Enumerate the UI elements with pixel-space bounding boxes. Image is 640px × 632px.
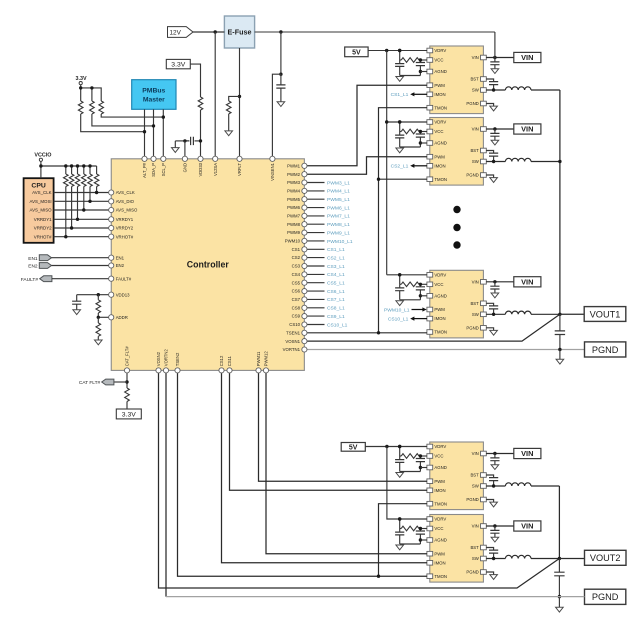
svg-text:CS12: CS12 [219,355,224,366]
svg-text:PGND: PGND [466,101,478,106]
svg-text:VDRV: VDRV [434,48,446,53]
svg-text:PWM11: PWM11 [256,351,261,366]
svg-text:VDRV: VDRV [434,444,446,449]
svg-text:5V: 5V [352,49,361,56]
svg-text:PGND: PGND [466,497,478,502]
svg-text:PWM5_L1: PWM5_L1 [327,197,350,203]
svg-text:3.3V: 3.3V [171,62,185,69]
svg-text:CS4_L1: CS4_L1 [327,272,345,278]
svg-text:PWM5: PWM5 [287,197,301,202]
svg-text:CS7_L1: CS7_L1 [327,297,345,303]
svg-text:E-Fuse: E-Fuse [228,28,252,37]
svg-text:AGND: AGND [434,141,446,146]
svg-text:CS2_L1: CS2_L1 [391,164,409,170]
svg-text:CS9: CS9 [292,314,301,319]
svg-text:PWM3_L1: PWM3_L1 [327,180,350,186]
svg-text:IMON: IMON [434,92,445,97]
svg-text:VIN: VIN [472,55,479,60]
svg-text:PWM9: PWM9 [287,230,301,235]
svg-text:VOSN2: VOSN2 [156,351,161,366]
svg-text:CS1_L1: CS1_L1 [391,92,409,98]
svg-text:SDA_P: SDA_P [151,163,156,177]
svg-text:PWM12: PWM12 [264,351,269,367]
svg-text:PGND: PGND [592,345,619,355]
svg-text:TMON: TMON [434,177,447,182]
svg-text:ALT_P#: ALT_P# [142,162,147,177]
svg-text:VCC: VCC [434,282,443,287]
svg-text:EN1: EN1 [28,256,38,262]
svg-text:TMON: TMON [434,330,447,335]
svg-text:BST: BST [470,545,479,550]
svg-text:CS7: CS7 [292,297,301,302]
svg-text:CS10_L1: CS10_L1 [388,316,409,322]
svg-text:CS5_L1: CS5_L1 [327,281,345,287]
svg-text:CAT_FLT#: CAT_FLT# [125,346,130,367]
svg-text:PWM8: PWM8 [287,222,301,227]
svg-text:VCC: VCC [434,58,443,63]
svg-text:3.3V: 3.3V [75,76,86,82]
svg-text:CS3: CS3 [292,264,301,269]
svg-text:PWM4: PWM4 [287,189,301,194]
svg-text:CS3_L1: CS3_L1 [327,264,345,270]
svg-text:SW: SW [472,484,480,489]
svg-text:VRHOT#: VRHOT# [116,234,134,239]
svg-text:PWM: PWM [434,479,445,484]
svg-text:SW: SW [472,159,480,164]
svg-text:PWM8_L1: PWM8_L1 [327,222,350,228]
svg-text:PWM: PWM [434,154,445,159]
svg-text:CPU: CPU [31,183,45,190]
svg-text:CS11: CS11 [227,355,232,366]
svg-text:GND: GND [183,163,188,172]
svg-text:VOUT2: VOUT2 [590,553,621,563]
svg-text:AVS_CLK: AVS_CLK [32,190,52,195]
svg-text:EN2: EN2 [28,264,38,270]
svg-text:AVS_DIO: AVS_DIO [116,199,135,204]
svg-text:FAULT#: FAULT# [116,276,132,281]
svg-text:BST: BST [470,148,479,153]
svg-text:PWM10: PWM10 [285,239,301,244]
svg-text:PWM4_L1: PWM4_L1 [327,189,350,195]
svg-text:Controller: Controller [187,260,230,270]
svg-text:IMON: IMON [434,488,445,493]
svg-text:PWM1: PWM1 [287,163,301,168]
svg-text:VCCIO: VCCIO [34,152,51,158]
svg-text:AVS_CLK: AVS_CLK [116,190,135,195]
svg-text:TMON: TMON [434,501,447,506]
svg-text:PWM10_L1: PWM10_L1 [384,307,410,313]
svg-text:SCL_P: SCL_P [161,163,166,176]
svg-text:AVS_MISO: AVS_MISO [29,208,52,213]
svg-text:FAULT#: FAULT# [21,277,39,283]
svg-text:TSEN2: TSEN2 [175,352,180,366]
svg-text:TSEN1: TSEN1 [286,330,300,335]
svg-text:VRRDY2: VRRDY2 [34,226,52,231]
svg-text:VDD13: VDD13 [116,292,130,297]
svg-text:VORTN2: VORTN2 [164,349,169,367]
svg-text:CS1: CS1 [292,247,301,252]
svg-text:CS2_L1: CS2_L1 [327,255,345,261]
svg-text:PWM: PWM [434,307,445,312]
svg-text:TMON: TMON [434,105,447,110]
svg-text:VRHOT#: VRHOT# [34,234,52,239]
svg-text:AVS_MOSI: AVS_MOSI [29,199,51,204]
svg-text:EN1: EN1 [116,255,125,260]
svg-text:IMON: IMON [434,316,445,321]
svg-text:CS8_L1: CS8_L1 [327,306,345,312]
svg-text:IMON: IMON [434,163,445,168]
svg-text:PWM2: PWM2 [287,172,301,177]
svg-text:ADDR: ADDR [116,315,128,320]
svg-text:VDRV: VDRV [434,120,446,125]
svg-text:VCC: VCC [434,454,443,459]
svg-text:Master: Master [143,96,165,103]
svg-text:VIN: VIN [472,127,479,132]
svg-text:VCC: VCC [434,526,443,531]
svg-text:CS1_L1: CS1_L1 [327,247,345,253]
svg-text:PGND: PGND [592,592,619,602]
svg-text:SW: SW [472,88,480,93]
svg-text:5V: 5V [349,444,358,451]
svg-text:PWM9_L1: PWM9_L1 [327,230,350,236]
svg-text:3.3V: 3.3V [122,411,136,418]
svg-text:CS10: CS10 [289,322,300,327]
svg-text:VIN: VIN [521,522,533,531]
svg-text:PWM10_L1: PWM10_L1 [327,239,353,245]
svg-text:VDRV: VDRV [434,517,446,522]
svg-text:PWM7_L1: PWM7_L1 [327,214,350,220]
svg-text:VDD33: VDD33 [198,162,203,176]
svg-text:VINSEN1: VINSEN1 [270,162,275,181]
svg-text:12V: 12V [170,29,182,36]
svg-text:VRRDY1: VRRDY1 [34,217,52,222]
svg-text:VIN: VIN [521,449,533,458]
svg-text:VRRDY1: VRRDY1 [116,217,134,222]
svg-text:PWM: PWM [434,551,445,556]
svg-text:PWM6_L1: PWM6_L1 [327,205,350,211]
svg-text:CAT FLT#: CAT FLT# [79,380,101,386]
svg-text:VORTN1: VORTN1 [283,347,301,352]
svg-text:VOUT1: VOUT1 [590,309,621,319]
svg-text:PWM7: PWM7 [287,214,301,219]
svg-text:VRRDY2: VRRDY2 [116,226,134,231]
svg-text:VIN: VIN [521,278,533,287]
svg-text:TMON: TMON [434,574,447,579]
svg-text:CS10_L1: CS10_L1 [327,322,348,328]
svg-text:CS9_L1: CS9_L1 [327,314,345,320]
svg-text:SW: SW [472,556,480,561]
svg-text:CS4: CS4 [292,272,301,277]
svg-text:VOSN1: VOSN1 [285,339,300,344]
svg-text:CS6: CS6 [292,289,301,294]
svg-text:CS2: CS2 [292,255,301,260]
svg-text:VIN: VIN [472,451,479,456]
svg-text:BST: BST [470,77,479,82]
svg-text:CS8: CS8 [292,305,301,310]
svg-text:CS6_L1: CS6_L1 [327,289,345,295]
svg-text:BST: BST [470,301,479,306]
svg-text:EN2: EN2 [116,263,125,268]
svg-text:CS5: CS5 [292,280,301,285]
svg-text:AGND: AGND [434,69,446,74]
svg-text:PGND: PGND [466,173,478,178]
svg-text:VIN: VIN [521,125,533,134]
svg-text:VIN: VIN [472,524,479,529]
svg-text:PGND: PGND [466,570,478,575]
svg-text:SW: SW [472,312,480,317]
svg-text:AVS_MISO: AVS_MISO [116,208,138,213]
svg-text:VCC: VCC [434,129,443,134]
svg-text:AGND: AGND [434,293,446,298]
svg-text:PWM: PWM [434,83,445,88]
svg-text:V12SA: V12SA [213,163,218,176]
svg-text:IMON: IMON [434,560,445,565]
svg-text:PWM6: PWM6 [287,205,301,210]
svg-text:PMBus: PMBus [142,87,165,94]
svg-text:VIN: VIN [521,53,533,62]
svg-text:AGND: AGND [434,538,446,543]
svg-text:PGND: PGND [466,325,478,330]
svg-text:VRFLT: VRFLT [237,163,242,176]
svg-text:BST: BST [470,473,479,478]
svg-text:VIN: VIN [472,279,479,284]
svg-text:AGND: AGND [434,465,446,470]
svg-text:VDRV: VDRV [434,272,446,277]
svg-text:PWM3: PWM3 [287,180,301,185]
